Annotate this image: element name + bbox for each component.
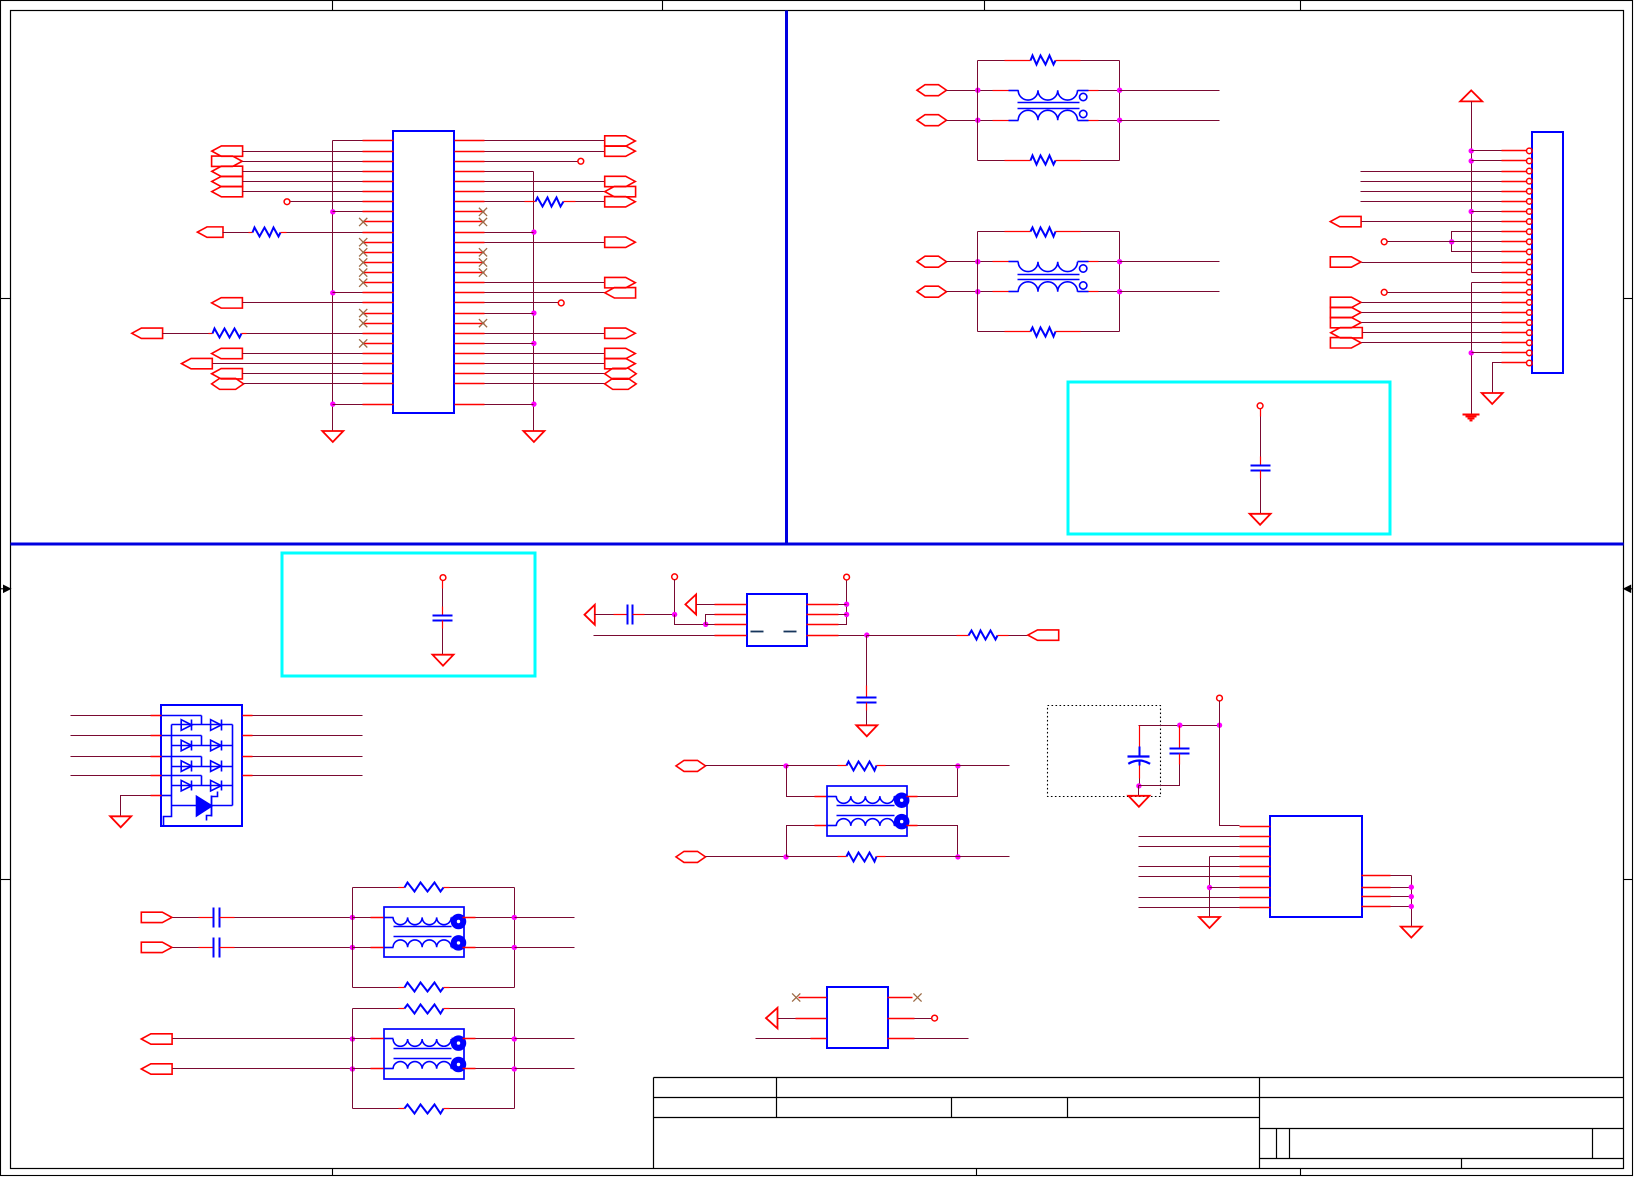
wire J1 p19 bbox=[1363, 332, 1502, 334]
J1 pin 10 bbox=[1502, 241, 1527, 243]
diode array D1 bbox=[161, 705, 242, 826]
resistor T3R1 bbox=[405, 883, 444, 892]
port P36 right-facing bbox=[1330, 338, 1361, 348]
capacitor T3C1 bbox=[213, 908, 215, 928]
port T1 B bidir bbox=[917, 115, 947, 126]
J1 pin 2 bbox=[1502, 160, 1527, 162]
U1 pin left 19 bbox=[363, 323, 394, 325]
border zone tick right bbox=[1624, 298, 1633, 300]
junction bbox=[955, 854, 960, 859]
U1 pin left 11 bbox=[363, 242, 394, 244]
wire J1 p6 bbox=[1361, 201, 1502, 203]
no-connect bubble U3 vcc bbox=[1217, 695, 1223, 701]
D1 pin right 3 bbox=[243, 756, 253, 758]
transformer T1 winding 2 bbox=[1018, 110, 1077, 120]
junction bbox=[350, 945, 355, 950]
U1 pin left 10 bbox=[363, 232, 394, 234]
wire U1L r20a bbox=[163, 333, 209, 335]
D1 pin right 4 bbox=[243, 775, 253, 777]
ground bbox=[1401, 927, 1422, 938]
T5 pin out B bbox=[907, 825, 918, 827]
U1 pin left 24 bbox=[363, 373, 394, 375]
wire D1 ch4 feed bbox=[162, 775, 202, 777]
wire D1 bottom-left stub bbox=[164, 806, 172, 827]
resistor R5 lead2 bbox=[877, 765, 886, 767]
transformer T3 stub out A bbox=[452, 917, 464, 919]
port P5 left bbox=[212, 186, 243, 196]
earth ground J1 bbox=[1463, 414, 1480, 416]
port P18 right bbox=[605, 237, 636, 247]
J1 pin 6 bbox=[1502, 201, 1527, 203]
U1 pin left 9 bbox=[363, 221, 394, 223]
U1 pin right 4 bbox=[455, 171, 485, 173]
transformer T3 winding bottom bbox=[393, 940, 451, 947]
wire U4 out3 bbox=[915, 1038, 969, 1040]
resistor R5 bbox=[847, 762, 877, 771]
resistor R6 lead2 bbox=[877, 856, 886, 858]
wire U1L r20b bbox=[247, 333, 363, 335]
U1 pin right 27 bbox=[455, 404, 485, 406]
junction bbox=[1469, 209, 1474, 214]
U1 pin left 13 bbox=[363, 262, 394, 264]
T3 pin out B bbox=[463, 947, 476, 949]
U3 pin left 5 bbox=[1240, 866, 1271, 868]
resistor R3 lead2 bbox=[564, 201, 576, 203]
capacitor C15 bbox=[1170, 748, 1190, 750]
U3 pin left 4 bbox=[1240, 856, 1271, 858]
U1 pin left 22 bbox=[363, 353, 394, 355]
no-connect X U1L r21 bbox=[359, 339, 367, 347]
wire U1R r4 bbox=[485, 171, 534, 173]
port T2 A bidir bbox=[917, 256, 947, 267]
wire U1L r3 bbox=[243, 161, 363, 163]
wire C13 top bbox=[866, 636, 868, 686]
D1 pin left 3 bbox=[151, 756, 162, 758]
wire C10 bot bbox=[1260, 479, 1262, 514]
resistor T4R1 lead bbox=[399, 1008, 405, 1010]
wire J1 p5 bbox=[1361, 191, 1502, 193]
J1 pin 7 bbox=[1502, 211, 1527, 213]
D1 pin left 2 bbox=[151, 735, 162, 737]
J1 pin 17 bbox=[1502, 312, 1527, 314]
wire T5 rail A a bbox=[787, 765, 838, 767]
resistor R1 lead2 bbox=[281, 232, 287, 234]
U2 pin left 4 bbox=[715, 635, 747, 637]
wire T5 out B bbox=[958, 856, 1010, 858]
wire U3 l3 bbox=[1139, 846, 1240, 848]
resistor T4R1 bbox=[405, 1005, 444, 1014]
resistor T2R2 lead2 bbox=[1056, 331, 1081, 333]
wire U3 l9 bbox=[1139, 907, 1240, 909]
J1 pin 20 bbox=[1502, 342, 1527, 344]
transformer T5 dot A bbox=[895, 793, 909, 807]
zener D1-Z bbox=[197, 796, 212, 816]
wire T5 out jog B bbox=[918, 826, 958, 857]
junction bbox=[531, 341, 536, 346]
U3 pin right 4 bbox=[1362, 906, 1391, 908]
diode D1-3b bbox=[211, 761, 222, 772]
transformer T3 stub in B bbox=[384, 947, 394, 949]
J1 pin 9 bbox=[1502, 231, 1527, 233]
wire D1 ch2 feed bbox=[162, 735, 202, 737]
transformer T1 stub in B bbox=[1009, 120, 1019, 122]
wire T4R1 rail b bbox=[450, 1008, 515, 1010]
J1 pin 19 bbox=[1502, 332, 1527, 334]
transformer T3 dot A bbox=[452, 915, 466, 929]
U1 pin right 21 bbox=[455, 343, 485, 345]
J1 pin 13 bbox=[1502, 272, 1527, 274]
wire U1R r23 bbox=[485, 363, 605, 365]
transformer T2 stub in B bbox=[1009, 291, 1019, 293]
transformer T2 winding 2 bbox=[1018, 282, 1077, 292]
U3 pin right 3 bbox=[1362, 896, 1391, 898]
wire U1R r24 bbox=[485, 373, 605, 375]
transformer T2 lead out A bbox=[1089, 261, 1099, 263]
resistor R4 bbox=[969, 631, 998, 640]
U1 pin left 25 bbox=[363, 383, 394, 385]
U3 pin left 3 bbox=[1240, 846, 1271, 848]
wire J1 p7 bbox=[1472, 211, 1502, 213]
junction bbox=[512, 915, 517, 920]
transformer T1 dot A bbox=[1080, 93, 1087, 100]
U1 pin right 1 bbox=[455, 140, 485, 142]
U1 pin left 23 bbox=[363, 363, 394, 365]
port T1 A bidir bbox=[917, 85, 947, 96]
junction bbox=[1449, 239, 1454, 244]
resistor T2R2 bbox=[1031, 328, 1056, 337]
wire T3 in C2 b bbox=[235, 947, 353, 949]
U2 pin right 2 bbox=[807, 614, 839, 616]
transformer T4 core bbox=[394, 1048, 452, 1050]
D1 pin left 1 bbox=[151, 715, 162, 717]
no-connect X U1L r15 bbox=[359, 279, 367, 287]
port P11 left bbox=[212, 369, 243, 379]
border zone tick right 2 bbox=[1624, 879, 1633, 881]
resistor R1 lead bbox=[249, 232, 253, 234]
transformer T2 stub out B bbox=[1078, 291, 1089, 293]
wire C10 bot lead bbox=[1260, 471, 1262, 479]
sheet divider vertical bbox=[785, 11, 788, 545]
resistor T1R1 lead2 bbox=[1056, 60, 1081, 62]
no-connect bubble r7 bbox=[284, 199, 290, 205]
wire D1 anode rail bbox=[171, 725, 173, 806]
port P6 left bbox=[197, 227, 223, 237]
port P19 right bbox=[605, 277, 636, 287]
transformer T2 core bbox=[1018, 274, 1080, 276]
T4 pin in A bbox=[371, 1038, 384, 1040]
junction bbox=[1409, 884, 1414, 889]
transformer T3 dot B bbox=[452, 936, 466, 950]
wire U3 l7 bbox=[1210, 887, 1240, 889]
U2 pin left 1 bbox=[715, 604, 747, 606]
wire C14 rail bbox=[1139, 725, 1220, 727]
wire T3 in C1 a bbox=[173, 917, 199, 919]
resistor T1R1 lead bbox=[1005, 60, 1031, 62]
wire U3 r4 bbox=[1391, 906, 1412, 908]
transformer T3 winding top bbox=[393, 917, 451, 924]
wire U2 out long bbox=[867, 635, 957, 637]
U2 pin right 1 bbox=[807, 604, 839, 606]
port P13 right bbox=[605, 136, 636, 146]
U1 pin left 12 bbox=[363, 252, 394, 254]
wire C14 bot bbox=[1139, 779, 1141, 786]
J1 pin 3 bbox=[1502, 171, 1527, 173]
ground bbox=[322, 431, 343, 442]
J1 pin 16 bbox=[1502, 302, 1527, 304]
border zone tick left bbox=[1, 298, 11, 300]
transformer T4 dot A bbox=[452, 1036, 466, 1050]
transformer T2 lead out B bbox=[1089, 291, 1099, 293]
wire J1 p17 bbox=[1362, 312, 1502, 314]
wire U1R r2 bbox=[485, 151, 605, 153]
wire U3 r2 bbox=[1391, 887, 1412, 889]
wire T3 out B2 bbox=[515, 947, 575, 949]
transformer T1 lead out B bbox=[1089, 120, 1099, 122]
wire D1 ch1 right bbox=[253, 715, 363, 717]
transformer T1 lead in B bbox=[993, 120, 1009, 122]
capacitor T3C2 bbox=[213, 938, 215, 958]
J1 pin 8 bbox=[1502, 221, 1527, 223]
no-connect X U1L r19 bbox=[359, 319, 367, 327]
wire T1 out A1 bbox=[1099, 90, 1120, 92]
U2 pin left 2 bbox=[715, 614, 747, 616]
wire T4R2 rail b bbox=[450, 1108, 515, 1110]
port P22 right bbox=[605, 348, 636, 358]
port P33 right-facing bbox=[1330, 307, 1361, 317]
junction bbox=[350, 915, 355, 920]
wire T4 to box B bbox=[353, 1068, 371, 1070]
junction bbox=[844, 612, 849, 617]
wire T2 in A bbox=[947, 261, 993, 263]
J1 pin 14 bbox=[1502, 282, 1527, 284]
U4 pin right 2 bbox=[888, 1018, 915, 1020]
port P15 right bbox=[605, 176, 636, 186]
U1 pin left 21 bbox=[363, 343, 394, 345]
wire D1 ch2 right bbox=[253, 735, 363, 737]
U1 pin left 5 bbox=[363, 181, 394, 183]
wire T4 left loop bbox=[352, 1009, 354, 1109]
junction bbox=[955, 763, 960, 768]
no-connect X U1R r9 bbox=[479, 218, 487, 226]
resistor T3R1 lead2 bbox=[444, 887, 450, 889]
transformer T4 winding top bbox=[393, 1039, 451, 1046]
wire J1 p8 bbox=[1362, 221, 1502, 223]
wire D1 ch3 left bbox=[71, 756, 151, 758]
transformer T3 box bbox=[384, 907, 464, 957]
no-connect bubble U1R r3 bbox=[578, 158, 584, 164]
wire U1L r17 bbox=[243, 302, 363, 304]
capacitor C12 lead bbox=[614, 614, 628, 616]
wire T4 out A2 bbox=[515, 1038, 575, 1040]
transformer T3 core bbox=[394, 926, 452, 928]
transformer T4 box bbox=[384, 1029, 464, 1079]
no-connect bubble J1 p15 bbox=[1381, 289, 1387, 295]
wire U1R r5 bbox=[485, 181, 605, 183]
wire U2 in3 bbox=[706, 624, 715, 626]
wire J1 p14 bbox=[1472, 282, 1502, 284]
port P41 triangle bbox=[585, 605, 595, 625]
port P42 left bbox=[1028, 630, 1059, 640]
transformer T2 dot A bbox=[1080, 265, 1087, 272]
wire D1 ch1 feed bbox=[162, 715, 202, 717]
wire U1R r18 bbox=[485, 313, 534, 315]
note box bottom-left bbox=[282, 553, 535, 676]
junction bbox=[350, 1066, 355, 1071]
ground bbox=[523, 431, 544, 442]
border zone tick top 2 bbox=[662, 1, 664, 11]
DC-DC module U2 bbox=[747, 594, 807, 646]
wire D1 row3 jog bbox=[201, 757, 203, 767]
port P34 right-facing bbox=[1330, 317, 1361, 327]
wire T3 out B bbox=[476, 947, 515, 949]
wire U1L r10a bbox=[223, 232, 249, 234]
transformer T5 stub out A bbox=[895, 796, 907, 798]
port P3 left bbox=[212, 166, 243, 176]
wire J1 p22 bbox=[1493, 363, 1502, 393]
transformer T5 stub in B bbox=[827, 825, 837, 827]
U3 pin left 6 bbox=[1240, 876, 1271, 878]
no-connect X U1R r19 bbox=[479, 319, 487, 327]
U1 pin left 27 bbox=[363, 404, 394, 406]
wire U1R r25 bbox=[485, 383, 605, 385]
wire T2 top rail b bbox=[1081, 231, 1120, 233]
port T2 B bidir bbox=[917, 286, 947, 297]
junction bbox=[531, 229, 536, 234]
U1 pin right 22 bbox=[455, 353, 485, 355]
wire U3 right gnd bus bbox=[1411, 876, 1413, 927]
port P7 left bbox=[212, 298, 243, 308]
U1 pin right 8 bbox=[455, 211, 485, 213]
no-connect bubble J1 p10 bbox=[1381, 239, 1387, 245]
transformer T2 stub out A bbox=[1078, 261, 1089, 263]
U1 pin right 10 bbox=[455, 232, 485, 234]
junction bbox=[975, 259, 980, 264]
wire J1 p16 bbox=[1362, 302, 1502, 304]
transformer T3 stub in A bbox=[384, 917, 394, 919]
D1 pin right 1 bbox=[243, 715, 253, 717]
resistor T1R2 lead2 bbox=[1056, 160, 1081, 162]
wire T1 bottom rail b bbox=[1081, 160, 1120, 162]
resistor T4R1 lead2 bbox=[444, 1008, 450, 1010]
wire T2 right loop bbox=[1119, 232, 1121, 332]
resistor T3R1 lead bbox=[399, 887, 405, 889]
wire T2 left loop bbox=[977, 232, 979, 332]
U1 pin right 5 bbox=[455, 181, 485, 183]
D1 pin left 4 bbox=[151, 775, 162, 777]
wire U1L r6 bbox=[243, 191, 363, 193]
wire J1 p1 bbox=[1472, 150, 1502, 152]
wire U2 in1 bbox=[697, 604, 715, 606]
U1 pin right 13 bbox=[455, 262, 485, 264]
wire U1R r6 bbox=[485, 191, 605, 193]
note box top-right bbox=[1068, 382, 1390, 534]
wire U2 out bus bbox=[839, 581, 847, 625]
wire U2 in2 up bbox=[706, 615, 715, 625]
U3 pin left 2 bbox=[1240, 836, 1271, 838]
transformer T5 winding top bbox=[836, 796, 894, 803]
wire D1 row1 jog bbox=[201, 716, 203, 725]
wire U2 in2 b bbox=[645, 614, 675, 616]
no-connect X U1L r11 bbox=[359, 238, 367, 246]
wire U3 r1 bbox=[1391, 875, 1412, 877]
resistor T2R1 lead2 bbox=[1056, 231, 1081, 233]
wire T1 top rail a bbox=[978, 60, 1005, 62]
T3 pin in A bbox=[371, 917, 384, 919]
resistor T4R2 lead bbox=[399, 1108, 405, 1110]
wire T3 in C1 b bbox=[235, 917, 353, 919]
junction bbox=[975, 118, 980, 123]
transformer T1 stub in A bbox=[1009, 90, 1019, 92]
U2 pin right 4 bbox=[807, 635, 839, 637]
junction bbox=[703, 622, 708, 627]
no-connect X U4 l1 bbox=[792, 993, 800, 1001]
wire U4 in3 bbox=[756, 1038, 811, 1040]
wire R4 out bbox=[1009, 635, 1028, 637]
wire U3 l5 bbox=[1139, 866, 1240, 868]
wire U2 out1 bbox=[839, 604, 847, 606]
wire T4 in A bbox=[173, 1038, 353, 1040]
wire T1 left loop bbox=[977, 61, 979, 161]
wire D1 ch2 left bbox=[71, 735, 151, 737]
U1 pin right 12 bbox=[455, 252, 485, 254]
wire J1 p9 bracket bbox=[1452, 232, 1502, 252]
port P8 left bbox=[132, 328, 163, 338]
U1 pin left 16 bbox=[363, 292, 394, 294]
D1 pin gnd bbox=[151, 795, 162, 797]
border zone tick top 1 bbox=[332, 1, 334, 11]
diode D1-1a bbox=[181, 720, 192, 731]
diode D1-4a bbox=[181, 780, 192, 791]
wire U1R r17 bbox=[485, 302, 559, 304]
J1 pin 15 bbox=[1502, 292, 1527, 294]
wire D1 ch4 left bbox=[71, 775, 151, 777]
wire J1 p12 bbox=[1362, 262, 1502, 264]
ground bbox=[1199, 917, 1220, 928]
wire T5 in A bbox=[706, 765, 787, 767]
resistor T4R2 lead2 bbox=[444, 1108, 450, 1110]
capacitor C13 lead bbox=[866, 686, 868, 698]
wire U1L r4 bbox=[243, 171, 363, 173]
capacitor T3C1 lead2 bbox=[220, 917, 235, 919]
resistor R4 lead2 bbox=[998, 635, 1009, 637]
transformer T4 stub in B bbox=[384, 1068, 394, 1070]
ground bbox=[433, 655, 454, 666]
U3 pin right 2 bbox=[1362, 887, 1391, 889]
wire U3 l4 bbox=[1210, 856, 1240, 858]
capacitor C11 bbox=[433, 615, 453, 617]
assembly note box (dotted) bbox=[1048, 706, 1161, 797]
wire U2 in2 a bbox=[595, 614, 614, 616]
U1 pin right 24 bbox=[455, 373, 485, 375]
J1 pin 21 bbox=[1502, 352, 1527, 354]
capacitor C13 lead2 bbox=[866, 703, 868, 711]
resistor R1 bbox=[253, 228, 281, 237]
U1 pin left 20 bbox=[363, 333, 394, 335]
port P23 right bbox=[605, 358, 636, 368]
junction bbox=[1217, 723, 1222, 728]
U3 pin left 7 bbox=[1240, 887, 1271, 889]
wire U3 vcc to pin bbox=[1220, 726, 1240, 826]
no-connect X U4 r1 bbox=[913, 993, 921, 1001]
junction bbox=[1117, 289, 1122, 294]
port P4 left bbox=[212, 176, 243, 186]
junction bbox=[1469, 148, 1474, 153]
J1 pin 1 bbox=[1502, 150, 1527, 152]
wire U1R r15 bbox=[485, 282, 605, 284]
U1 pin right 17 bbox=[455, 302, 485, 304]
wire T4R1 rail a bbox=[353, 1008, 399, 1010]
junction bbox=[531, 310, 536, 315]
